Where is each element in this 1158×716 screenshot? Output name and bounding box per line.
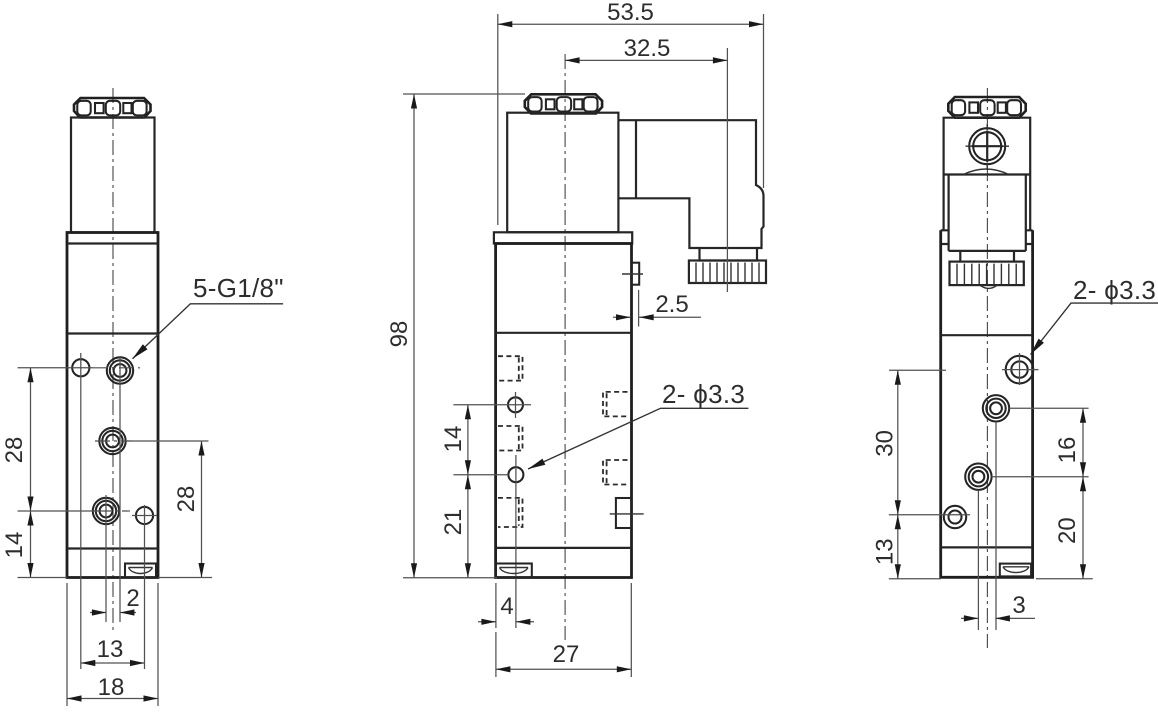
valve body left view (67, 233, 158, 578)
mounting hole 2 middle view (508, 467, 523, 482)
svg-text:2- ϕ3.3: 2- ϕ3.3 (662, 379, 745, 409)
dimension 16 (1082, 408, 1084, 476)
extension line level port3 (18, 510, 97, 512)
extension line hole2 vertical (515, 455, 517, 628)
flange middle view (494, 232, 632, 243)
connector screw right view (969, 128, 1005, 164)
dimension 3 (961, 617, 1035, 619)
svg-text:13: 13 (872, 538, 899, 565)
arc below screw (963, 169, 1008, 175)
ports section divider left view (67, 332, 158, 334)
dimension 27 (496, 583, 631, 677)
valve body right view (941, 230, 1033, 577)
bottom slot tab left view (125, 564, 156, 578)
connector knurled nut middle view (689, 261, 766, 284)
extension line from port 1 (119, 356, 121, 622)
pilot hole right view (944, 506, 966, 528)
port 2 (G1/8) left view (99, 428, 125, 454)
port hole 3 right view (965, 464, 991, 490)
svg-text:14: 14 (440, 426, 467, 453)
svg-text:2- ϕ3.3: 2- ϕ3.3 (1073, 275, 1156, 305)
extension lines right side (992, 408, 1093, 578)
svg-text:21: 21 (440, 509, 467, 536)
svg-text:32.5: 32.5 (624, 35, 671, 62)
extension line level port1/holeA (18, 367, 94, 369)
dimension 4 (478, 583, 534, 628)
mounting tab right edge middle view (632, 263, 640, 285)
hidden port square left 3 (498, 498, 523, 527)
connector neck middle view (700, 248, 758, 261)
dimension 98 (403, 94, 525, 578)
svg-text:27: 27 (553, 641, 580, 668)
valve body middle view (496, 244, 632, 578)
nut tip right view (980, 285, 998, 288)
dimension 13 bottom of left view (81, 662, 145, 664)
bottom edge extension left view (18, 577, 213, 579)
hidden port square right 2 (603, 460, 628, 485)
pilot hole B left view (136, 507, 153, 524)
coil nut right view (948, 97, 1025, 118)
dimension 18 bottom of left view (67, 583, 158, 706)
dimension 20 (1082, 477, 1084, 579)
hidden port square left 2 (498, 426, 523, 451)
port 3 (G1/8) left view (93, 498, 119, 524)
port hole 2 right view (983, 395, 1009, 421)
extension lines right view left side (889, 370, 970, 578)
pilot hole A left view (72, 359, 89, 376)
dimension 32.5 (565, 59, 727, 61)
ports section divider right view (941, 334, 1033, 336)
dimension 14 left (vertical) (27, 511, 33, 526)
extension line from hole B (144, 505, 146, 669)
lower right tab middle view (616, 498, 632, 528)
svg-text:28: 28 (173, 486, 200, 513)
dimension 28 left (vertical) (30, 368, 32, 578)
connector centerline extension (726, 48, 728, 292)
coil nut left view (74, 98, 151, 118)
bottom slot tab right view (1000, 564, 1031, 577)
coil nut middle view (525, 94, 602, 113)
centerline left view (112, 88, 114, 632)
coil sides right view (949, 175, 1026, 251)
dimension 21 middle (467, 475, 469, 578)
extension vertical from hole2 and hole3 (978, 422, 996, 630)
svg-text:4: 4 (500, 593, 513, 620)
connector housing right view (944, 118, 1031, 231)
svg-text:28: 28 (1, 437, 28, 464)
extension line from port 3 (105, 495, 107, 622)
svg-text:14: 14 (1, 532, 28, 559)
extension line hole2 level (453, 474, 508, 476)
svg-text:3: 3 (1012, 592, 1025, 619)
svg-text:98: 98 (386, 321, 413, 348)
connector inner line (635, 120, 637, 198)
svg-text:5-G1/8": 5-G1/8" (193, 273, 284, 303)
bottom slot tab middle view (496, 564, 532, 578)
flange step right view (941, 230, 1033, 244)
base divider right view (941, 546, 1033, 548)
extension line from hole A (80, 353, 82, 669)
coil body middle view (507, 113, 618, 233)
dimension 2 bottom of left view (90, 612, 136, 614)
dimension 28 right of left view (201, 441, 203, 578)
DIN connector elbow middle view (618, 120, 763, 248)
dimension 13 right view (897, 515, 899, 579)
svg-text:20: 20 (1054, 517, 1081, 544)
ports section divider middle view (496, 332, 632, 334)
dimension 30 (897, 370, 899, 515)
dimension 2.5 (613, 290, 701, 327)
svg-text:18: 18 (98, 674, 125, 701)
svg-text:2.5: 2.5 (655, 291, 688, 318)
centerline right view (986, 88, 988, 648)
flange line left view (67, 242, 158, 244)
extension line level port2 (95, 440, 132, 442)
mounting hole 1 middle view (508, 397, 523, 412)
coil body left view (71, 118, 155, 233)
hidden port square left 1 (498, 356, 523, 380)
svg-text:53.5: 53.5 (607, 0, 654, 26)
neck right view (960, 251, 1014, 262)
hole phi3.3 top right view (1006, 356, 1034, 384)
dimension 53.5 (498, 14, 764, 225)
crosshair hole B (132, 515, 157, 517)
svg-text:16: 16 (1054, 437, 1081, 464)
svg-text:13: 13 (97, 636, 124, 663)
knurled nut right view (950, 262, 1024, 286)
svg-text:30: 30 (872, 430, 899, 457)
centerline middle view (564, 54, 566, 640)
svg-text:2: 2 (126, 585, 139, 612)
base divider left view (67, 547, 158, 549)
port 1 (G1/8) left view (107, 357, 133, 383)
hidden port square right 1 (603, 392, 628, 417)
extension line hole1 level (453, 404, 531, 406)
dimension 14 middle (467, 405, 469, 475)
base divider middle view (496, 547, 632, 549)
